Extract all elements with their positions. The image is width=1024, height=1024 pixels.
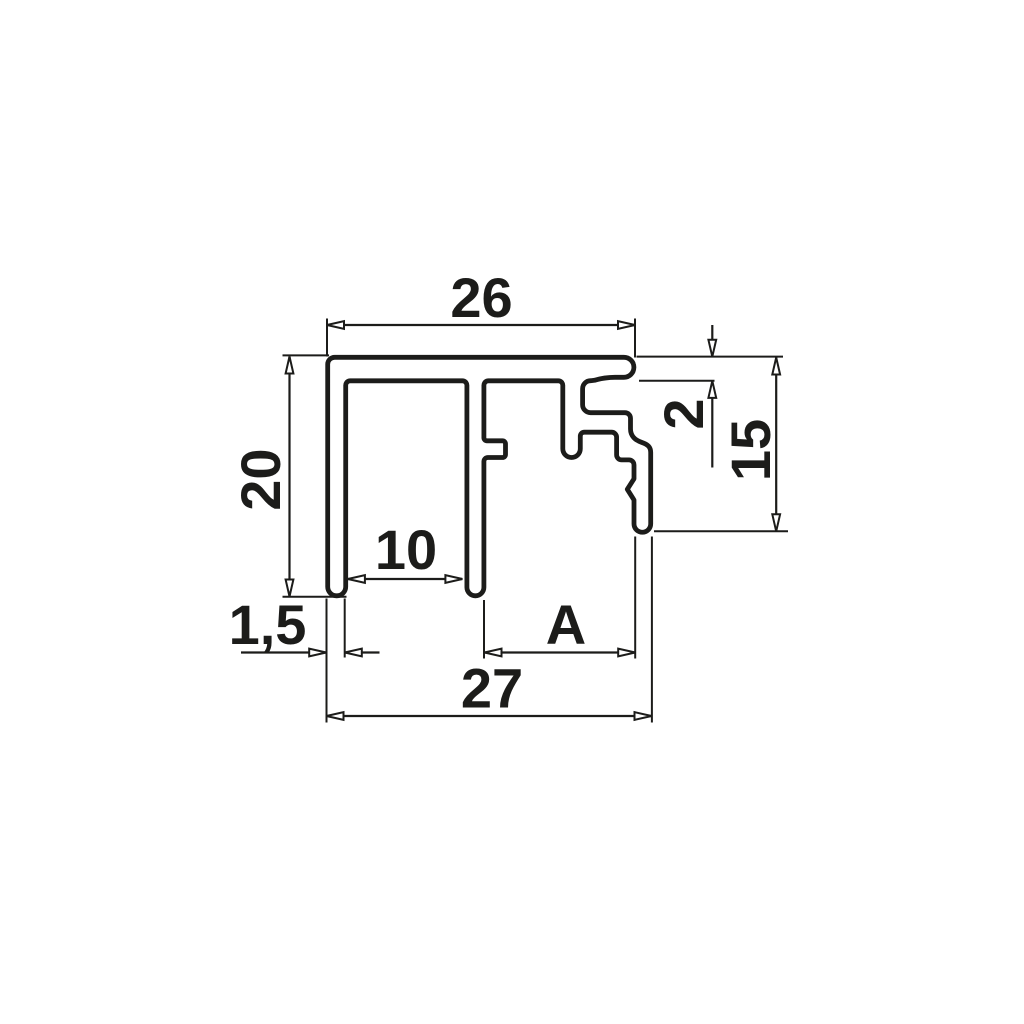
svg-text:27: 27 (461, 657, 523, 720)
svg-text:A: A (546, 593, 586, 656)
svg-text:20: 20 (229, 448, 292, 510)
svg-text:1,5: 1,5 (229, 593, 307, 656)
svg-text:10: 10 (375, 518, 437, 581)
svg-text:15: 15 (719, 419, 782, 481)
svg-text:2: 2 (652, 398, 715, 429)
svg-text:26: 26 (450, 266, 512, 329)
